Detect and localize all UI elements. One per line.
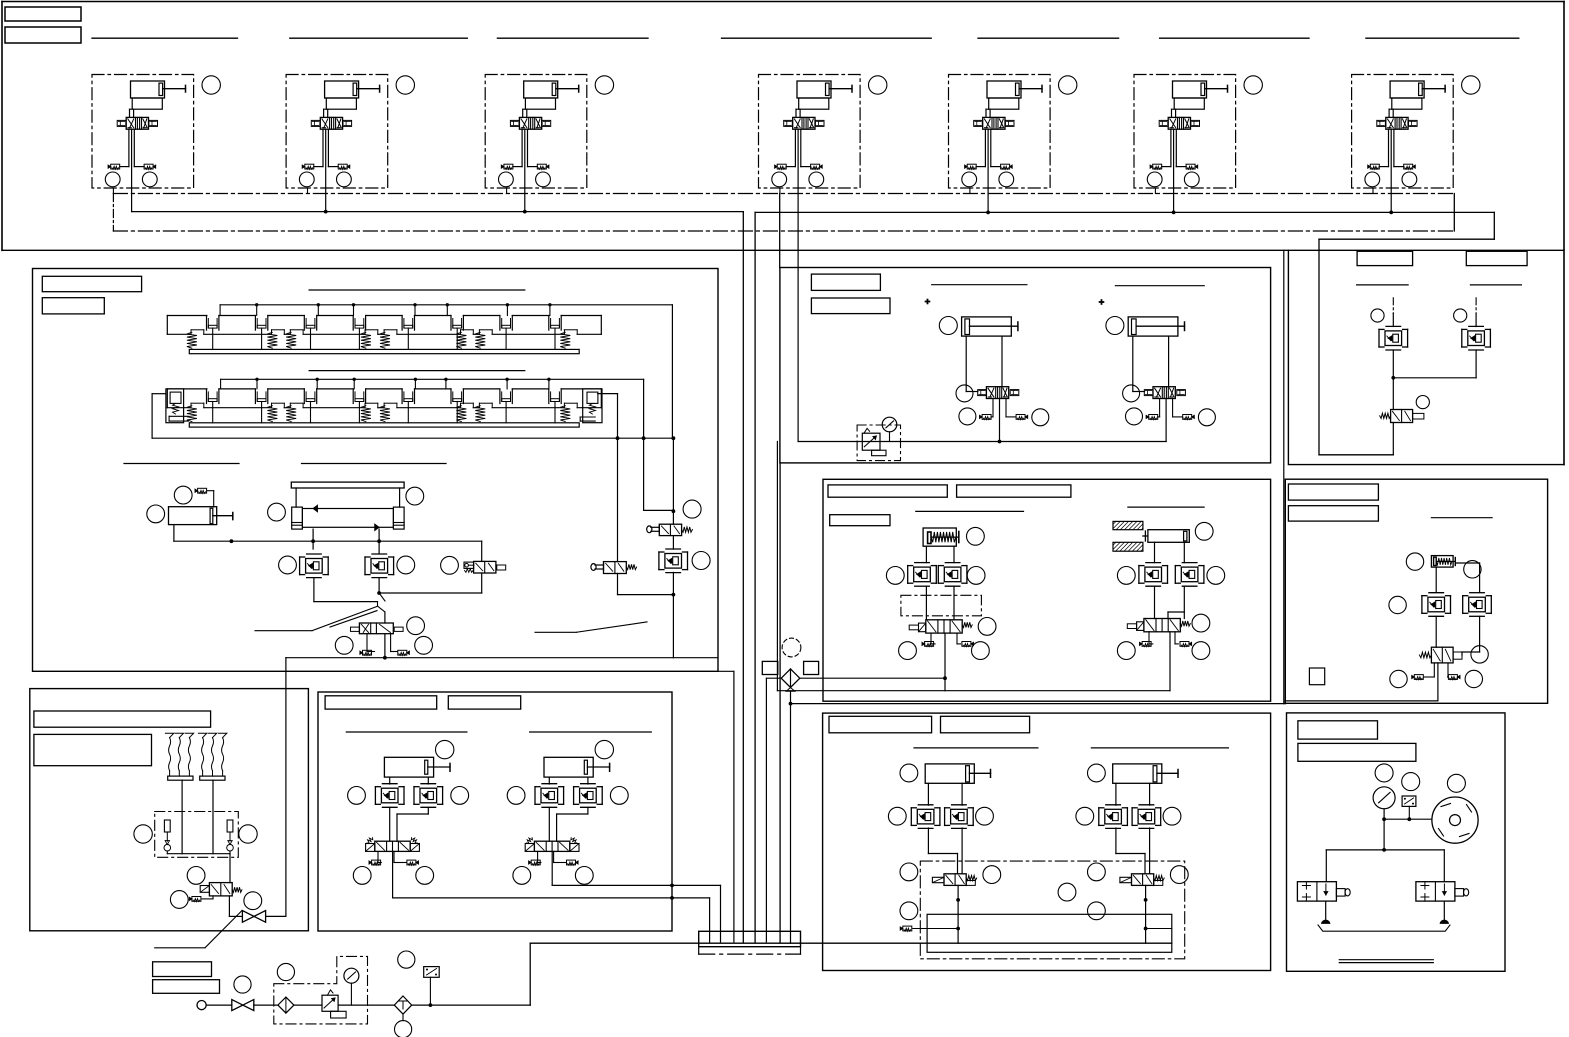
outlet wire: [412, 1004, 531, 1006]
right bus corner down: [1493, 212, 1495, 239]
pcv mid id circle 2: [441, 556, 459, 574]
main valve attachment left: [351, 627, 360, 631]
lock label line 1: [1357, 284, 1409, 286]
unit V3 supply line: [524, 129, 526, 188]
lock valve lower wire: [481, 573, 483, 593]
clamp spring: [563, 403, 565, 408]
left supply bus: [132, 211, 744, 213]
shut-off valve lever mark: [205, 911, 242, 948]
clamp cylinder id circle: [1195, 522, 1213, 540]
cylinder unit V2 piston: [353, 83, 357, 95]
press valve silencers: [930, 633, 932, 644]
clamp piston: [548, 316, 550, 331]
stopper wires to valve: [1435, 616, 1437, 647]
manual valve A (3/2 with plunger): [659, 524, 681, 535]
clamp piston: [206, 389, 208, 404]
blow-off circles: [1375, 764, 1393, 782]
unit V2 supply line: [325, 129, 327, 188]
feeder section frame: [318, 692, 672, 931]
transfer regulator: [862, 433, 880, 450]
press label box 2: [957, 485, 1071, 497]
unit V3 port circle right: [536, 172, 551, 187]
cylinder unit V5 mounting block: [989, 98, 1019, 109]
press valve plate (dash-dot): [901, 595, 982, 616]
main valve supply drop: [384, 634, 386, 658]
unit V7 id circle: [1462, 76, 1480, 94]
clamp piston: [548, 389, 550, 404]
cylinder unit V5 piston: [1016, 83, 1020, 95]
filter-regulator wire: [294, 1004, 322, 1006]
cylinder unit V2 mounting block: [326, 98, 356, 109]
clamp feed stub: [316, 379, 318, 389]
eject E2 wires to valve: [1115, 828, 1117, 854]
vacuum valve solenoid: [200, 886, 209, 893]
feeder valve F2 circles: [513, 867, 531, 885]
main riser from right bus: [754, 212, 756, 941]
unit V6 exhaust line right: [1175, 129, 1177, 166]
press spring cylinder: [923, 528, 956, 546]
exhaust circle left: [335, 636, 353, 654]
flow control right of valve V7: [1409, 120, 1418, 126]
cylinder unit V4 piston: [826, 83, 830, 95]
unit V5 port circle right: [999, 172, 1014, 187]
unit V3 id circle: [595, 76, 613, 94]
clamp valve attachments: [1137, 622, 1144, 631]
lifter wire left lower: [313, 578, 315, 602]
unit V5 id circle: [1059, 76, 1077, 94]
clamp pcv circles: [1117, 567, 1135, 585]
main riser from left bus: [742, 212, 744, 942]
bus riser right x1454: [1453, 194, 1455, 232]
cylinder unit V1 rod: [163, 88, 186, 90]
transfer valve T1 flow controls: [978, 390, 987, 396]
riser below pilot box to manifold: [779, 463, 781, 942]
eject E2 pilot check valve right: [1131, 808, 1133, 826]
transfer label line 1: [932, 284, 1027, 286]
lubricator id circle: [398, 951, 415, 968]
unit V4 wire block-to-valve: [796, 108, 799, 110]
row2 left end cylinder: [166, 389, 184, 423]
main valve attachment right: [394, 627, 403, 631]
unit V6 enclosure stub to bus: [1154, 188, 1156, 194]
pcv mid id circle: [397, 556, 415, 574]
unit V4 port circle right: [809, 172, 824, 187]
eject valve E1 supply drop: [957, 885, 959, 943]
feeder valve F2 springs: [527, 838, 533, 844]
wire down to blow-off box: [1318, 239, 1320, 455]
unit V6 silencer left: [1153, 164, 1162, 169]
press label line 2: [1128, 506, 1204, 508]
air service label box 1: [153, 962, 212, 977]
lifter pilot check valve left: [299, 557, 301, 575]
unit V6 exhaust line left: [1170, 129, 1172, 166]
unit V6 wire block-to-valve: [1172, 108, 1175, 110]
cylinder unit V3 piston: [552, 83, 556, 95]
unit V6 port circle right: [1184, 172, 1199, 187]
unit V1 port circle right: [142, 172, 157, 187]
stopper label box 1: [1288, 484, 1378, 500]
feeder valve F1 (5/2 double solenoid): [375, 841, 410, 851]
blow valve B2 attachment: [1455, 889, 1464, 897]
press valve (5/2 solenoid): [926, 620, 962, 633]
clamp piston: [352, 316, 354, 331]
unit V7 supply line: [1390, 129, 1392, 188]
cylinder unit V1 piston: [159, 83, 163, 95]
lock valve (3/2 roller): [474, 561, 496, 573]
clamp spring: [460, 330, 462, 335]
regulator relief port: [331, 1011, 347, 1018]
shuttle valve link wire: [800, 677, 945, 679]
lifter id circle: [268, 503, 286, 521]
clamp spring: [383, 330, 385, 335]
pusher port circle: [147, 505, 165, 523]
clamp piston: [499, 389, 501, 404]
clamp valve silencers: [1148, 632, 1150, 644]
stopper silencers: [1433, 663, 1435, 677]
cylinder unit V6 piston: [1201, 83, 1205, 95]
eject inner enclosure (dash-dot): [920, 861, 1184, 959]
stopper silencer circles: [1390, 670, 1407, 687]
lock valve bottom wire: [1392, 423, 1394, 455]
cylinder unit V7 mounting block: [1392, 98, 1422, 109]
eject E1 pcv circles: [888, 807, 906, 825]
transfer T1 wire right: [1001, 336, 1003, 387]
eject silencer: [903, 926, 912, 931]
press wires to valve: [925, 586, 927, 620]
clamp spring: [271, 330, 273, 335]
lock pcv 1 center line stub: [1392, 298, 1394, 314]
transfer valve T1 id circle: [956, 385, 973, 402]
vacuum filter circle right: [239, 825, 257, 843]
blow valve B1 attachment: [1336, 889, 1345, 897]
unit V7 drop to right bus: [1390, 188, 1392, 212]
clamp spring: [364, 403, 366, 408]
flow control left of valve V6: [1159, 120, 1168, 126]
unit V1 wire block-to-valve: [130, 108, 133, 110]
clamp feed stub: [506, 379, 508, 389]
clamp piston: [254, 316, 256, 331]
unit V4 id circle: [869, 76, 887, 94]
inlet shut-off valve: [232, 1000, 243, 1011]
unit V6 id circle: [1244, 76, 1262, 94]
blow nozzle 1: [1325, 901, 1327, 919]
eject label box 2: [941, 716, 1030, 733]
clamp feed stub: [445, 379, 447, 389]
unit V1 enclosure stub to bus: [112, 188, 114, 194]
press wires to pcv: [925, 546, 927, 562]
stopper section frame: [1285, 479, 1547, 703]
feeder cylinder F2 id circle: [595, 740, 613, 758]
clamp spring: [364, 330, 366, 335]
label line for valve unit V4: [722, 37, 932, 39]
unit V1 exhaust line left: [128, 129, 130, 166]
lifter frame top plate: [291, 482, 404, 488]
lock valve spring: [465, 569, 474, 573]
transfer T2 exhaust circles: [1126, 408, 1143, 425]
feeder label line 2: [530, 731, 652, 733]
flow control left of valve V5: [974, 120, 983, 126]
shuttle valve id circle (dashed): [782, 638, 801, 657]
feeder F1 wires to valve: [389, 807, 391, 841]
wire to FRL: [254, 1004, 278, 1006]
press pilot check valve left: [907, 566, 909, 584]
clamp hatched jaw bottom: [1113, 542, 1143, 551]
blow-off pressure switch: [1402, 796, 1416, 806]
pusher cylinder id circle: [174, 486, 192, 504]
eject E1 wires to pcv: [927, 783, 929, 805]
clamp row 1 label line: [309, 289, 525, 291]
lock label box 2: [1466, 251, 1527, 265]
lifter wire right lower: [378, 578, 380, 593]
clamp feed line: [220, 304, 672, 306]
unit V1 port circle left: [105, 172, 120, 187]
unit V5 supply line: [987, 129, 989, 188]
feeder F2 pilot check valve right: [573, 787, 575, 805]
feeder valve F1 supply wire: [392, 851, 394, 898]
lifter left guide cylinder: [292, 507, 303, 529]
feeder F1 wire left: [389, 777, 391, 784]
transfer T2 wire left: [1132, 336, 1134, 391]
vacuum filter left: [164, 820, 170, 832]
row2 feed riser: [643, 379, 645, 510]
air curtain bracket: [1318, 925, 1450, 931]
unit V4 silencer right: [811, 164, 820, 169]
lock section frame: [1288, 250, 1564, 464]
air manifold block: [699, 931, 801, 946]
valve unit V5 enclosure (dash-dot box): [949, 75, 1051, 189]
clamp valve circles: [1192, 614, 1210, 632]
stopper wires: [1435, 567, 1437, 592]
solenoid valve V2 (5/2): [320, 117, 342, 129]
stopper valve (3/2 spring return): [1431, 647, 1453, 663]
lock valve (3/2 spring return): [1391, 410, 1413, 423]
blow-off distribution tee: [1326, 849, 1444, 851]
unit V3 silencer left: [504, 164, 513, 169]
datum mark 1: [926, 301, 930, 303]
press valve supply wire: [944, 633, 946, 691]
lifter right guide cylinder: [393, 507, 404, 529]
unit V1 exhaust line right: [133, 129, 135, 166]
unit V5 enclosure stub to bus: [969, 188, 971, 194]
transfer regulator enclosure (dash-dot): [857, 425, 900, 461]
unit V5 exhaust line left: [984, 129, 986, 166]
pcv left id circle: [279, 556, 297, 574]
flow control left of valve V4: [784, 120, 793, 126]
manual valve B (3/2 with plunger): [604, 562, 627, 574]
eject E2 wires to pcv: [1115, 783, 1117, 805]
clamp piston: [254, 389, 256, 404]
lock pcv 1 id circle: [1371, 309, 1384, 322]
valve B return spring: [626, 564, 636, 569]
transfer valve T1 exhausts: [992, 399, 994, 417]
flow control right of valve V1: [149, 120, 158, 126]
unit V1 drop to left bus: [131, 188, 133, 212]
dash-dot assembly bus lower: [113, 230, 1454, 232]
eject valve E2 circles: [1088, 863, 1106, 881]
clamp rail: [189, 349, 579, 353]
clamp spring: [190, 403, 192, 408]
main valve id circle: [407, 617, 425, 635]
unit V4 supply line: [797, 129, 799, 188]
eject valve E1 (3/2): [944, 874, 966, 886]
unit V2 silencer right: [338, 164, 347, 169]
blow nozzle 2: [1443, 901, 1445, 919]
pusher flow control: [198, 488, 207, 493]
valve unit V6 enclosure (dash-dot box): [1134, 75, 1236, 189]
unit V6 drop to right bus: [1173, 188, 1175, 212]
vacuum pad bar left: [168, 776, 193, 780]
top section bottom rail: [2, 249, 1564, 251]
valve unit V7 enclosure (dash-dot box): [1352, 75, 1454, 189]
flow control right of valve V3: [542, 120, 551, 126]
air filter: [278, 997, 294, 1013]
flow control left of valve V7: [1377, 120, 1386, 126]
eject E1 pilot check valve left: [910, 808, 912, 826]
eject label box 1: [829, 716, 932, 733]
lock wires: [1392, 350, 1394, 410]
stopper valve id circle: [1471, 646, 1488, 663]
label line for valve unit V5: [978, 37, 1119, 39]
cylinder unit V3 mounting block: [525, 98, 555, 109]
regulator outlet wire: [338, 1004, 394, 1006]
unit V1 silencer left: [111, 164, 120, 169]
unit V6 port circle left: [1147, 172, 1162, 187]
pilot supply wire A: [286, 657, 718, 659]
unit V5 silencer left: [967, 164, 976, 169]
lock label box 1: [1357, 251, 1413, 265]
vacuum valve feed: [229, 854, 231, 883]
clamp bar bottom edge: [167, 407, 191, 409]
row2 right end foot: [580, 416, 595, 418]
solenoid valve V4 (5/2): [793, 117, 815, 129]
vacuum section frame: [30, 689, 309, 931]
eject E2 pcv circles: [1076, 807, 1094, 825]
vacuum pump symbol: [1432, 797, 1478, 843]
unit V2 exhaust line right: [327, 129, 329, 166]
unit V4 exhaust line left: [794, 129, 796, 166]
clamp feed stub: [317, 305, 319, 316]
cylinder unit V3 rod: [556, 88, 579, 90]
valve B wire: [617, 438, 619, 561]
unit V7 port circle right: [1402, 172, 1417, 187]
vacuum filter enclosure (dash-dot): [155, 812, 239, 858]
right bus return line: [1319, 238, 1494, 240]
blow-off wires top: [1383, 809, 1385, 850]
flow control right of valve V2: [343, 120, 352, 126]
eject inner manifold box: [927, 914, 1172, 952]
page border left: [1, 2, 3, 251]
flow control left of valve V3: [510, 120, 519, 126]
lock pcv 2 center line stub: [1475, 298, 1477, 314]
shuttle valve port box left: [762, 661, 778, 674]
stopper pilot check valve left: [1421, 596, 1423, 614]
clamp spring: [289, 330, 291, 335]
unit V5 silencer right: [1001, 164, 1010, 169]
clamp spring: [478, 330, 480, 335]
clamp hatched jaw top: [1113, 521, 1143, 529]
transfer cylinder T1: [962, 317, 1012, 336]
lifter body: [302, 509, 393, 528]
supply branch to manifold: [718, 670, 734, 672]
stopper label box 2: [1288, 506, 1378, 521]
stopper pilot check valve right: [1462, 596, 1464, 614]
clamp wires to pcv: [1154, 542, 1156, 562]
title block box 1: [5, 7, 81, 21]
clamp spring: [271, 403, 273, 408]
valve unit V3 enclosure (dash-dot box): [485, 75, 587, 189]
dash-dot bus left riser: [112, 194, 114, 232]
press spring cylinder id circle: [967, 527, 985, 545]
unit V7 exhaust line left: [1388, 129, 1390, 166]
vacuum pad: [175, 733, 183, 737]
eject E1 wires to valve: [927, 828, 929, 854]
row2 left end foot: [169, 415, 188, 417]
unit V2 port circle right: [337, 172, 352, 187]
eject valve E2 solenoid: [1120, 877, 1132, 882]
pusher fc wire: [208, 490, 214, 492]
lubricator: [394, 996, 411, 1014]
air service label box 2: [153, 980, 220, 994]
clamp feed stub: [446, 305, 448, 316]
right feed wire to lock box: [1283, 250, 1285, 703]
transfer valve T2 supply drop: [1165, 399, 1167, 442]
eject center circle: [1058, 883, 1076, 901]
pilot check valve right id circle: [692, 552, 710, 570]
feeder valve F2 supply wire: [551, 851, 553, 885]
row2 pilot loop wire bottom: [152, 437, 673, 439]
clamp spring: [563, 330, 565, 335]
clamp feed stub: [549, 305, 551, 316]
vacuum pad: [218, 733, 226, 737]
blow valve B2 (2/2): [1416, 882, 1455, 901]
vacuum line left: [181, 780, 183, 854]
clamp piston: [303, 316, 305, 331]
press label line 1: [916, 510, 1024, 512]
blow-off gauge: [1373, 787, 1395, 809]
unit V5 wire block-to-valve: [986, 108, 989, 110]
cylinder unit V6 body: [1173, 81, 1207, 98]
cylinder unit V1 mounting block: [132, 98, 162, 109]
unit V3 drop to left bus: [524, 188, 526, 212]
clamp feed stub: [353, 379, 355, 389]
transfer valve T2 id circle: [1123, 385, 1140, 402]
feeder label box 1: [325, 696, 437, 709]
unit V7 silencer right: [1404, 164, 1413, 169]
unit V1 supply line: [131, 129, 133, 188]
blow-off section frame: [1287, 713, 1506, 971]
cylinder unit V7 piston: [1419, 83, 1423, 95]
unit V4 exhaust line right: [800, 129, 802, 166]
unit V2 silencer left: [305, 164, 314, 169]
cylinder unit V2 rod: [357, 88, 380, 90]
riser link wire: [644, 509, 674, 511]
inlet valve id circle: [234, 976, 251, 993]
clamp piston: [206, 316, 208, 331]
pusher cylinder piston: [210, 508, 213, 524]
pilot valve supply wire: [672, 438, 674, 524]
eject cylinder E2 id circle: [1088, 764, 1106, 782]
unit V5 drop to right bus: [987, 188, 989, 212]
filter id circle: [277, 963, 294, 980]
cylinder unit V7 body: [1390, 81, 1424, 98]
row2 right end wire: [598, 393, 618, 395]
shuttle valve port box right: [804, 661, 819, 674]
feeder label box 2: [448, 696, 520, 709]
clamp section label box 1: [42, 276, 141, 291]
vacuum pad: [165, 733, 173, 737]
label line for valve unit V3: [497, 37, 648, 39]
solenoid valve V1 (5/2): [126, 117, 148, 129]
